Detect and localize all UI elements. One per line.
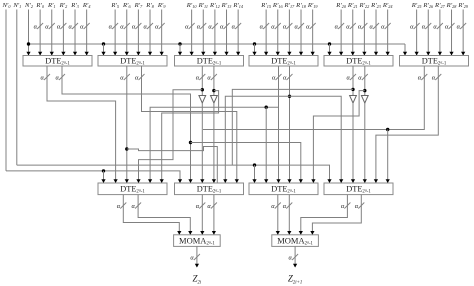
junction dot N'2 bus col4 [253, 42, 256, 45]
wire T4.out1 to C.in3 [278, 66, 280, 183]
arrow into DTE T6 in1 [403, 52, 407, 56]
arrow into DTE T5 in2 [339, 52, 343, 56]
DTE block T3 [175, 56, 244, 67]
arrow MOMA1 output [195, 264, 199, 268]
wire R'21 drop [352, 10, 354, 56]
arrow into DTE T6 in5 [449, 52, 453, 56]
wire T5.out1 [352, 66, 354, 96]
arrow MOMA2.in1 [276, 231, 280, 235]
wire R'1 drop [51, 10, 53, 56]
DTE block D [324, 183, 393, 195]
wire R'12 drop [214, 10, 216, 56]
wire R'26 drop [427, 10, 429, 56]
MOMA block M1 [174, 235, 221, 247]
arrow into DTE T5 in5 [374, 52, 378, 56]
arrow A.in5 [148, 179, 152, 183]
junction dot T5.out2 [363, 89, 366, 92]
wire N'1 vertical [16, 10, 18, 166]
junction dot N'2 bus col5 [328, 42, 331, 45]
arrow MOMA2 output [293, 264, 297, 268]
wire N'0 bus [6, 171, 180, 183]
arrow D.in3 [351, 179, 355, 183]
DTE block T2 [98, 56, 167, 67]
inverter V3 [350, 96, 357, 104]
wire V3 out to D.in3 [352, 103, 354, 183]
wire T1.out2 to B.in2 [62, 66, 191, 183]
arrow into DTE T1 in4 [61, 52, 65, 56]
wire R'7 drop [137, 10, 139, 56]
arrow B.in6 [235, 179, 239, 183]
arrow D.in4 [363, 179, 367, 183]
arrow into DTE T6 in4 [438, 52, 442, 56]
wire R'6 drop [126, 10, 128, 56]
arrow into DTE T2 in1 [101, 52, 105, 56]
arrow into DTE T4 in5 [299, 52, 303, 56]
arrow A.in1 [101, 179, 105, 183]
wire R'29 drop [462, 10, 464, 56]
arrow A.in2 [114, 179, 118, 183]
arrow A.in4 [136, 179, 140, 183]
wire R'10 drop [191, 10, 193, 56]
arrow MOMA2.in2 [287, 231, 291, 235]
arrow B.in1 [178, 179, 182, 183]
arrow A.in6 [160, 179, 164, 183]
wire D.out1 to MOMA2.in3 [301, 195, 348, 235]
arrow into DTE T4 in2 [264, 52, 268, 56]
wire R'13 drop [226, 10, 228, 56]
wire N'2 vertical [28, 10, 30, 56]
wire T2.out1 to A.in3 [126, 66, 128, 183]
wire N'2 bus drop col4 [254, 44, 256, 56]
arrow into DTE T5 in4 [362, 52, 366, 56]
arrow into DTE T1 in6 [85, 52, 89, 56]
arrow C.in4 [287, 179, 291, 183]
arrow into DTE T6 in3 [426, 52, 430, 56]
arrow into DTE T5 in1 [327, 52, 331, 56]
wire C.out2 to MOMA2.in2 [288, 195, 290, 235]
arrow into DTE T1 in5 [73, 52, 77, 56]
junction dot T3.out1 [201, 88, 204, 91]
wire T3.out2 raw to A.in6 [162, 91, 219, 183]
arrow B.in3 [200, 179, 204, 183]
arrow into DTE T6 in6 [461, 52, 465, 56]
arrow MOMA1.in3 [200, 231, 204, 235]
wire T6.out1 to D.in6 [203, 66, 424, 130]
wire D.in6 drop [387, 130, 389, 184]
junction dot T4.out1 branch [265, 106, 268, 109]
wire branch to C.in5 [191, 143, 301, 184]
wire T1.out1 to A.in2 [47, 66, 116, 183]
arrow into DTE T4 in1 [252, 52, 256, 56]
wire R'17 drop [288, 10, 290, 56]
DTE block C [249, 183, 318, 195]
arrow into DTE T2 in6 [160, 52, 164, 56]
wire V2 out to B.in4 [213, 103, 215, 183]
arrow into DTE T4 in6 [311, 52, 315, 56]
MOMA block M2 [272, 235, 319, 247]
wire N'1 bus [17, 165, 330, 183]
wire R'9 drop [161, 10, 163, 56]
wire MOMA2 output [294, 246, 296, 267]
wire R'23 drop [375, 10, 377, 56]
junction dot T4.out2 [288, 95, 291, 98]
arrow MOMA2.in4 [310, 231, 314, 235]
inverter V1 [199, 96, 206, 104]
wire R'18 drop [300, 10, 302, 56]
junction dot T1.out2 branch [189, 141, 192, 144]
wire R'0 drop [39, 10, 41, 56]
wire T3.out1 [201, 66, 203, 96]
junction dot T5.out1 [351, 88, 354, 91]
wire T5.out1 raw branch [232, 89, 353, 165]
DTE block T1 [23, 56, 92, 67]
arrow D.in5 [374, 179, 378, 183]
arrow into DTE T3 in1 [178, 52, 182, 56]
wire T4.out2 to C.in4 [289, 66, 291, 183]
arrow into DTE T2 in5 [148, 52, 152, 56]
arrow into DTE T6 in2 [415, 52, 419, 56]
arrow into DTE T1 in3 [50, 52, 54, 56]
wire R'22 drop [363, 10, 365, 56]
wire C.out1 to MOMA2.in1 [277, 195, 279, 235]
arrow into DTE T2 in3 [125, 52, 129, 56]
arrow into DTE T5 in3 [351, 52, 355, 56]
DTE block A [98, 183, 167, 195]
junction dot N'2 bus col2 [102, 42, 105, 45]
wire N'2 bus drop col3 [179, 44, 181, 56]
wire R'16 drop [277, 10, 279, 56]
arrow B.in2 [188, 179, 192, 183]
arrow D.in2 [339, 179, 343, 183]
wire T4.out2 branch to D.in2 [290, 96, 342, 183]
junction dot N'1 bus [253, 163, 256, 166]
arrow C.in3 [276, 179, 280, 183]
wire N'0 drop A.in1 [103, 171, 105, 183]
wire N'2 bus drop col5 [329, 44, 331, 56]
arrow MOMA1.in1 [177, 231, 181, 235]
junction dot T2.out1 branch [125, 147, 128, 150]
wire N'2 bus drop col6 [404, 44, 406, 56]
wire R'27 drop [439, 10, 441, 56]
wire T2.out1 branch [127, 147, 218, 184]
wire C.in2 drop [265, 107, 267, 183]
wire R'8 drop [149, 10, 151, 56]
arrow A.in3 [125, 179, 129, 183]
DTE block T5 [324, 56, 393, 67]
wire T6.out2 to D.in5 [376, 66, 438, 183]
wire V1 out to B.in3 [201, 103, 203, 183]
wire R'14 drop [237, 10, 239, 56]
arrow into DTE T3 in4 [213, 52, 217, 56]
wire A.out1 to MOMA1.in1 [123, 195, 179, 235]
wire T3.out2 [213, 66, 215, 96]
wire A.out2 to MOMA1.in2 [138, 195, 190, 235]
arrow MOMA2.in3 [299, 231, 303, 235]
arrow into DTE T2 in4 [136, 52, 140, 56]
wire T4.out2 branch to B.in5 [225, 96, 289, 183]
arrow into DTE T4 in4 [287, 52, 291, 56]
wire D.out2 to MOMA2.in4 [312, 195, 361, 235]
wire V4 out to D.in4 [364, 103, 366, 183]
wire R'5 drop [114, 10, 116, 56]
arrow MOMA1.in2 [188, 231, 192, 235]
wire B.out2 to MOMA1.in4 [213, 195, 215, 235]
wire T5.out2 raw to C.in6 [313, 91, 364, 183]
arrow into DTE T3 in5 [224, 52, 228, 56]
arrow D.in1 [327, 179, 331, 183]
wire R'24 drop [387, 10, 389, 56]
junction dot T3.out2 [212, 89, 215, 92]
wire R'11 drop [202, 10, 204, 56]
junction dot N'0 bus [102, 169, 105, 172]
junction dot T6.out1 branch [386, 128, 389, 131]
wire N'2 bus [29, 43, 406, 45]
arrow B.in4 [212, 179, 216, 183]
arrow into DTE T1 in1 [26, 52, 30, 56]
wire R'19 drop [312, 10, 314, 56]
arrow into DTE T3 in6 [236, 52, 240, 56]
arrow C.in2 [264, 179, 268, 183]
junction dot N'2 bus col1 [27, 42, 30, 45]
arrow D.in6 [386, 179, 390, 183]
arrow C.in5 [299, 179, 303, 183]
wire N'2 bus drop col2 [103, 44, 105, 56]
arrow into DTE T2 in2 [113, 52, 117, 56]
junction dot N'2 bus col3 [178, 42, 181, 45]
wire N'0 vertical [5, 10, 7, 171]
arrow into DTE T3 in3 [201, 52, 205, 56]
wire R'3 drop [74, 10, 76, 56]
wire R'28 drop [451, 10, 453, 56]
arrow MOMA1.in4 [212, 231, 216, 235]
DTE block T6 [400, 56, 469, 67]
wire R'20 drop [340, 10, 342, 56]
inverter V4 [361, 96, 368, 104]
wire R'4 drop [86, 10, 88, 56]
arrow into DTE T3 in2 [190, 52, 194, 56]
arrow C.in6 [311, 179, 315, 183]
wire R'15 drop [265, 10, 267, 56]
wire T4.out1 branch to A.in5 [150, 107, 278, 183]
arrow C.in1 [252, 179, 256, 183]
arrow B.in5 [223, 179, 227, 183]
inverter V2 [211, 96, 218, 104]
arrow into DTE T5 in6 [386, 52, 390, 56]
DTE block T4 [249, 56, 318, 67]
wire T2.out2 to B.in6 [142, 66, 237, 183]
wire R'2 drop [62, 10, 64, 56]
wire T3.out1 raw to A.in4 [139, 90, 203, 183]
arrow into DTE T4 in3 [276, 52, 280, 56]
wire T5.out2 [364, 66, 366, 96]
wire B.out1 to MOMA1.in3 [201, 195, 203, 235]
DTE block B [175, 183, 244, 195]
arrow into DTE T1 in2 [38, 52, 42, 56]
wire R'25 drop [416, 10, 418, 56]
wire N'1 drop C.in1 [254, 165, 256, 183]
wire MOMA1 output [196, 246, 198, 267]
